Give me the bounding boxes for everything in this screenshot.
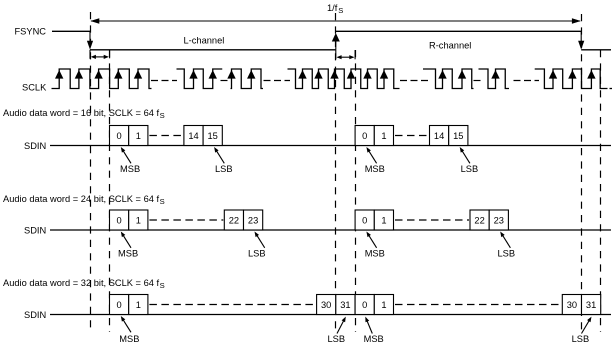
bit cell 15 (R-channel, 16-bit) <box>449 126 468 146</box>
svg-text:0: 0 <box>117 216 122 226</box>
bit cell 30 (L-channel, 32-bit) <box>317 295 336 315</box>
bit cell 14 (L-channel, 16-bit) <box>184 126 203 146</box>
svg-text:S: S <box>160 197 165 206</box>
SDIN omitted-bits dashes (L, 24-bit) <box>149 219 223 221</box>
one-SCLK delay double arrow (left) <box>91 55 109 59</box>
svg-text:LSB: LSB <box>328 334 346 344</box>
SCLK trailing dash at frame end <box>610 88 612 90</box>
SCLK break dashes 3 <box>264 80 291 82</box>
svg-text:SCLK: SCLK <box>22 83 47 93</box>
SDIN omitted-bits dashes (R, 32-bit) <box>395 304 561 306</box>
bit cell 0 (L-channel, 16-bit) <box>110 126 129 146</box>
svg-text:R-channel: R-channel <box>429 41 471 51</box>
svg-text:1: 1 <box>381 300 386 310</box>
reference line at FSYNC fall (right frame boundary) <box>581 14 583 332</box>
svg-text:LSB: LSB <box>461 164 479 174</box>
svg-text:22: 22 <box>229 216 239 226</box>
svg-text:1: 1 <box>136 131 141 141</box>
MSB pointer (L, 16-bit) <box>123 151 131 164</box>
svg-text:15: 15 <box>208 131 218 141</box>
svg-text:Audio data word = 32 bit, SCLK: Audio data word = 32 bit, SCLK = 64 f <box>3 278 159 288</box>
bit cell 15 (L-channel, 16-bit) <box>203 126 222 146</box>
SDIN wire (16-bit) <box>50 145 611 147</box>
svg-text:1: 1 <box>136 216 141 226</box>
svg-text:LSB: LSB <box>498 248 516 258</box>
svg-text:L-channel: L-channel <box>184 36 225 46</box>
SCLK break dashes 6 <box>514 80 540 82</box>
FSYNC low wire (next frame) <box>581 49 611 51</box>
svg-text:MSB: MSB <box>119 334 139 344</box>
bit cell 0 (R-channel, 24-bit) <box>355 210 374 230</box>
one-SCLK delay double arrow (middle) <box>337 55 355 59</box>
bit cell 22 (R-channel, 24-bit) <box>470 210 489 230</box>
bit cell 14 (R-channel, 16-bit) <box>430 126 449 146</box>
svg-text:S: S <box>160 111 165 120</box>
tick at x=90 below FSYNC low <box>89 50 91 59</box>
FSYNC lead wire <box>52 30 90 32</box>
SCLK pulse train 1 (L-channel start) <box>52 69 152 89</box>
svg-text:S: S <box>338 6 343 15</box>
bit cell 30 (R-channel, 32-bit) <box>562 295 581 315</box>
MSB pointer (R, 16-bit) <box>369 151 377 164</box>
SDIN omitted-bits dashes (R, 24-bit) <box>395 219 469 221</box>
svg-text:1/f: 1/f <box>327 3 338 13</box>
FSYNC falling edge arrow at left boundary <box>87 31 93 49</box>
reference line at FSYNC fall (left frame boundary) <box>90 12 92 332</box>
SCLK pulse train 4 (around R-channel start) <box>288 69 400 89</box>
svg-text:Audio data word = 16 bit, SCLK: Audio data word = 16 bit, SCLK = 64 f <box>3 108 159 118</box>
svg-text:MSB: MSB <box>118 248 138 258</box>
reference line one SCLK after left boundary <box>109 50 111 332</box>
SCLK pulse train 5 <box>423 69 474 89</box>
tick at x=355.1 below mid boundary <box>354 50 356 59</box>
LSB pointer (R, 24-bit) <box>502 235 510 248</box>
svg-text:0: 0 <box>117 300 122 310</box>
svg-text:MSB: MSB <box>364 334 384 344</box>
reference line at FSYNC rise (mid frame boundary) <box>335 13 337 332</box>
svg-text:1: 1 <box>381 216 386 226</box>
LSB pointer (right, 32-bit) <box>582 320 590 333</box>
bit cell 31 (L-channel, 32-bit) <box>336 295 355 315</box>
SDIN omitted-bits dashes (R, 16-bit) <box>395 135 429 137</box>
svg-text:30: 30 <box>567 300 577 310</box>
svg-text:0: 0 <box>362 216 367 226</box>
svg-text:SDIN: SDIN <box>24 141 46 151</box>
FSYNC falling edge arrow at right boundary <box>578 31 584 49</box>
svg-text:22: 22 <box>474 216 484 226</box>
svg-text:0: 0 <box>362 131 367 141</box>
bit cell 22 (L-channel, 24-bit) <box>224 210 243 230</box>
svg-text:0: 0 <box>362 300 367 310</box>
SCLK break dash 2 <box>221 80 230 82</box>
bit cell 31 (R-channel, 32-bit) <box>582 295 601 315</box>
SCLK break dashes 4 <box>400 80 429 82</box>
tick at x=335.8 below mid boundary <box>335 50 337 60</box>
MSB pointer (R, 24-bit) <box>369 235 377 248</box>
MSB pointer (mid, 32-bit R MSB) <box>367 321 372 334</box>
LSB pointer (mid, 32-bit L LSB) <box>337 320 344 333</box>
tick at x=109.6 below FSYNC low <box>109 50 111 58</box>
svg-text:23: 23 <box>248 216 258 226</box>
SCLK pulse train 3 <box>231 69 264 89</box>
SCLK rising edge sampling arrows <box>55 70 596 79</box>
SDIN wire (24-bit) <box>50 229 611 231</box>
reference line one SCLK after right boundary <box>600 50 602 332</box>
svg-text:23: 23 <box>494 216 504 226</box>
SDIN wire (32-bit) <box>50 314 611 316</box>
svg-text:S: S <box>160 281 165 290</box>
1/fS period dimension arrow <box>90 18 581 24</box>
svg-text:MSB: MSB <box>120 164 140 174</box>
bit cell 0 (L-channel, 24-bit) <box>110 210 129 230</box>
bit cell 0 (R-channel, 16-bit) <box>355 126 374 146</box>
bit cell 1 (R-channel, 16-bit) <box>374 126 393 146</box>
MSB pointer (L, 24-bit) <box>123 235 131 248</box>
svg-text:SDIN: SDIN <box>24 310 46 320</box>
svg-text:0: 0 <box>117 131 122 141</box>
bit cell 1 (R-channel, 24-bit) <box>374 210 393 230</box>
svg-text:MSB: MSB <box>365 164 385 174</box>
svg-text:LSB: LSB <box>572 334 590 344</box>
svg-text:1: 1 <box>136 300 141 310</box>
svg-text:SDIN: SDIN <box>24 226 46 236</box>
SCLK pulse train 2 <box>177 69 223 89</box>
FSYNC rising edge arrow at mid boundary <box>332 33 340 50</box>
svg-text:31: 31 <box>586 300 596 310</box>
SCLK break dash 5 <box>474 80 483 82</box>
SCLK pulse train 6 <box>479 69 510 89</box>
FSYNC low wire (L-channel) <box>90 49 336 51</box>
svg-text:15: 15 <box>453 131 463 141</box>
svg-text:Audio data word = 24 bit, SCLK: Audio data word = 24 bit, SCLK = 64 f <box>3 194 159 204</box>
svg-text:1: 1 <box>381 131 386 141</box>
FSYNC high wire (R-channel) <box>336 30 581 32</box>
svg-text:14: 14 <box>188 131 198 141</box>
bit cell 23 (R-channel, 24-bit) <box>489 210 508 230</box>
bit cell 23 (L-channel, 24-bit) <box>244 210 263 230</box>
svg-text:30: 30 <box>321 300 331 310</box>
bit cell 1 (L-channel, 16-bit) <box>129 126 148 146</box>
svg-text:14: 14 <box>434 131 444 141</box>
bit cell 1 (L-channel, 32-bit) <box>129 295 148 315</box>
svg-text:FSYNC: FSYNC <box>15 27 47 37</box>
LSB pointer (L, 24-bit) <box>257 235 265 248</box>
LSB pointer (L, 16-bit) <box>216 151 224 164</box>
bit cell 0 (L-channel, 32-bit) <box>110 295 129 315</box>
bit cell 1 (L-channel, 24-bit) <box>129 210 148 230</box>
svg-text:31: 31 <box>340 300 350 310</box>
bit cell 0 (R-channel, 32-bit) <box>355 295 374 315</box>
svg-text:MSB: MSB <box>365 248 385 258</box>
reference line one SCLK after mid boundary <box>355 50 357 332</box>
MSB pointer (L, 32-bit) <box>123 320 131 333</box>
svg-text:LSB: LSB <box>215 164 233 174</box>
SCLK break dashes 1 <box>151 80 177 82</box>
svg-text:LSB: LSB <box>248 248 266 258</box>
bit cell 1 (R-channel, 32-bit) <box>374 295 393 315</box>
SDIN omitted-bits dashes (L, 32-bit) <box>149 304 315 306</box>
SCLK pulse train 7 (frame end) <box>535 69 608 89</box>
LSB pointer (R, 16-bit) <box>462 151 470 164</box>
SDIN omitted-bits dashes (L, 16-bit) <box>149 135 183 137</box>
